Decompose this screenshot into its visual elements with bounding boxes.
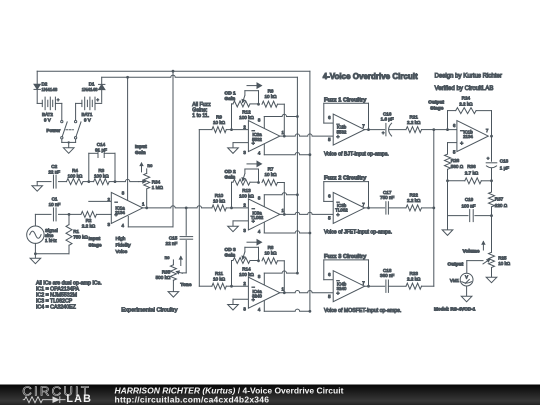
svg-text:R3: R3 [98,168,104,173]
svg-text:4-Voice Overdrive Circuit: 4-Voice Overdrive Circuit [323,72,418,81]
svg-text:Gain: Gain [225,174,236,180]
svg-text:3240: 3240 [252,293,262,298]
svg-text:10 kΩ: 10 kΩ [213,120,226,125]
svg-text:Output: Output [428,99,444,105]
svg-text:Gain: Gain [135,150,146,156]
svg-text:Input: Input [135,144,147,150]
svg-text:R12: R12 [242,110,251,115]
svg-text:BAT1: BAT1 [82,112,93,117]
svg-text:+: + [460,141,463,147]
svg-text:100 kΩ: 100 kΩ [239,272,254,277]
svg-text:R26: R26 [451,158,460,163]
svg-text:360 nF: 360 nF [380,273,394,278]
svg-text:R25: R25 [498,256,507,261]
svg-text:Power: Power [46,128,60,133]
svg-text:2.2 kΩ: 2.2 kΩ [407,120,421,125]
svg-text:+: + [336,291,339,297]
svg-text:Tone: Tone [180,282,191,288]
svg-text:R23: R23 [409,271,418,276]
svg-text:R22: R22 [409,193,418,198]
svg-text:R34: R34 [152,180,161,185]
svg-text:Fuzz 3 Circuitry: Fuzz 3 Circuitry [324,254,367,260]
svg-text:10 kΩ: 10 kΩ [213,277,226,282]
svg-text:R6: R6 [268,88,274,93]
svg-text:2.2 kΩ: 2.2 kΩ [407,198,421,203]
svg-text:+: + [487,156,490,161]
svg-text:Output: Output [447,261,463,267]
svg-text:3240: 3240 [337,286,347,291]
svg-text:100 kΩ: 100 kΩ [68,174,83,179]
svg-text:LAB: LAB [66,393,92,405]
svg-text:Fuzz 1 Circuitry: Fuzz 1 Circuitry [324,97,367,103]
svg-text:220 Ω: 220 Ω [495,203,508,208]
svg-text:IC4 = CA3240EZ: IC4 = CA3240EZ [36,305,77,311]
svg-text:10 kΩ: 10 kΩ [264,250,277,255]
svg-text:R14: R14 [242,266,251,271]
svg-text:C2: C2 [51,164,57,169]
svg-text:10 kΩ: 10 kΩ [264,172,277,177]
svg-text:+: + [336,134,339,140]
svg-text:BAT2: BAT2 [42,112,53,117]
svg-text:Volume: Volume [463,248,480,254]
svg-text:1 µF: 1 µF [500,165,509,170]
svg-text:Voice: Voice [116,249,128,255]
svg-text:10 kΩ: 10 kΩ [264,94,277,99]
svg-text:R37: R37 [495,196,504,201]
svg-text:OD 1: OD 1 [225,91,237,97]
svg-text:100 kΩ: 100 kΩ [239,194,254,199]
svg-text:Voice of JFET-input op-amps.: Voice of JFET-input op-amps. [324,230,392,236]
svg-text:R4: R4 [72,168,78,173]
svg-text:100 kΩ: 100 kΩ [239,115,254,120]
svg-text:Model: RS-4VOD-1: Model: RS-4VOD-1 [434,306,476,311]
svg-text:R2: R2 [86,218,92,223]
svg-text:750 nF: 750 nF [380,195,394,200]
svg-text:C14: C14 [97,142,106,147]
svg-text:1N4148: 1N4148 [82,87,98,92]
svg-text:V: V [465,274,468,279]
svg-text:Gain: Gain [225,253,236,259]
svg-text:1N4148: 1N4148 [42,87,58,92]
svg-text:2.2 kΩ: 2.2 kΩ [407,276,421,281]
svg-text:1 to 11.: 1 to 11. [192,113,209,119]
svg-text:R21: R21 [409,114,418,119]
svg-text:R24: R24 [462,95,471,100]
svg-text:Fuzz 2 Circuitry: Fuzz 2 Circuitry [324,176,367,182]
svg-text:1 MΩ: 1 MΩ [152,185,164,190]
svg-text:Experimental Circuitry: Experimental Circuitry [121,308,177,314]
svg-text:Input: Input [89,236,101,242]
svg-text:TL082: TL082 [251,215,264,220]
svg-text:nc: nc [147,163,153,168]
svg-text:10 kΩ: 10 kΩ [213,198,226,203]
svg-text:OD 3: OD 3 [225,247,237,253]
svg-text:Stage: Stage [89,243,102,249]
svg-text:1 kHz: 1 kHz [45,238,57,243]
svg-text:Voice of MOSFET-input op-amps.: Voice of MOSFET-input op-amps. [324,308,401,314]
svg-text:R11: R11 [215,271,224,276]
svg-text:2134: 2134 [463,134,473,139]
svg-text:22 nF: 22 nF [48,170,60,175]
svg-text:100 nF: 100 nF [461,204,475,209]
svg-text:R13: R13 [242,188,251,193]
svg-text:+: + [336,213,339,219]
svg-text:Fidelity: Fidelity [116,243,132,249]
svg-text:C15: C15 [169,236,178,241]
svg-text:1.6 µF: 1.6 µF [381,117,394,122]
svg-text:2.2 kΩ: 2.2 kΩ [459,101,473,106]
svg-text:5532: 5532 [337,129,347,134]
svg-text:TL082: TL082 [335,208,348,213]
svg-text:750 kΩ: 750 kΩ [73,234,88,239]
svg-text:+: + [382,130,385,135]
svg-text:2.2 kΩ: 2.2 kΩ [82,224,96,229]
svg-text:OD 2: OD 2 [225,169,237,175]
svg-text:VM1: VM1 [450,278,460,283]
svg-text:R8: R8 [268,245,274,250]
svg-text:2.7 kΩ: 2.7 kΩ [465,170,479,175]
svg-text:R35: R35 [162,270,171,275]
svg-text:C19: C19 [465,197,474,202]
svg-text:100 kΩ: 100 kΩ [94,174,109,179]
svg-text:C1: C1 [52,197,58,202]
svg-text:9 V: 9 V [84,117,91,122]
svg-text:500 kΩ: 500 kΩ [156,275,171,280]
svg-text:10 nF: 10 nF [49,202,61,207]
svg-text:10 kΩ: 10 kΩ [498,261,511,266]
svg-text:R9: R9 [216,115,222,120]
svg-text:R1: R1 [73,229,79,234]
svg-text:R10: R10 [215,193,224,198]
svg-text:C13: C13 [500,158,509,163]
svg-text:http://circuitlab.com/ca4cxd4b: http://circuitlab.com/ca4cxd4b2x346 [115,394,270,404]
svg-text:Voice of BJT-input op-amps.: Voice of BJT-input op-amps. [324,151,389,157]
svg-text:Stage: Stage [430,105,443,111]
svg-text:22 nF: 22 nF [166,241,178,246]
svg-text:91 pF: 91 pF [95,147,107,152]
svg-text:5532: 5532 [252,137,262,142]
svg-text:Design by Kurtus Richter: Design by Kurtus Richter [435,73,502,80]
svg-text:High: High [116,236,126,242]
svg-text:R36: R36 [467,164,476,169]
svg-text:Gain: Gain [225,96,236,102]
svg-text:2134: 2134 [115,210,125,215]
svg-text:560 Ω: 560 Ω [451,164,464,169]
svg-text:Verified by CircuitLAB: Verified by CircuitLAB [435,85,494,92]
svg-text:9 V: 9 V [44,117,51,122]
svg-text:R7: R7 [268,167,274,172]
svg-text:nc: nc [165,255,171,260]
